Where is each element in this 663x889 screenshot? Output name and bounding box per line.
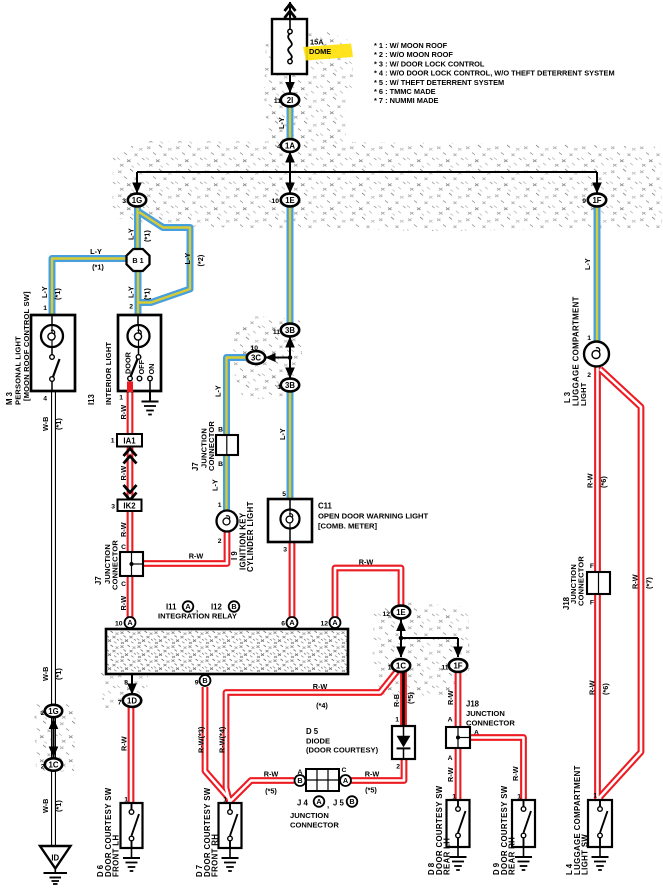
svg-text:DOOR: DOOR (124, 351, 133, 374)
svg-text:CYLINDER LIGHT: CYLINDER LIGHT (246, 501, 255, 572)
svg-text:1: 1 (593, 793, 597, 800)
svg-text:(*2): (*2) (196, 254, 205, 266)
svg-text:J7: J7 (94, 576, 103, 585)
svg-text:R-W: R-W (119, 466, 128, 481)
svg-text:1E: 1E (285, 196, 295, 205)
svg-text:FRONT LH: FRONT LH (112, 835, 121, 877)
svg-text:(*1): (*1) (54, 668, 63, 680)
svg-text:L-Y: L-Y (90, 247, 102, 256)
svg-text:CONNECTOR: CONNECTOR (290, 821, 339, 830)
svg-text:* 1 : W/ MOON ROOF: * 1 : W/ MOON ROOF (374, 41, 448, 50)
svg-text:R-W: R-W (365, 770, 380, 779)
svg-text:(*7): (*7) (645, 577, 654, 589)
svg-text:11: 11 (273, 329, 280, 336)
svg-text:A: A (289, 618, 295, 627)
svg-text:3: 3 (111, 504, 115, 511)
svg-text:11: 11 (441, 665, 448, 672)
svg-text:R-W: R-W (119, 596, 128, 611)
svg-text:* 7 : NUMMI MADE: * 7 : NUMMI MADE (374, 96, 439, 105)
svg-text:2: 2 (396, 764, 400, 771)
svg-text:(*1): (*1) (54, 800, 63, 812)
svg-text:2: 2 (41, 710, 45, 717)
svg-text:(*5): (*5) (265, 787, 277, 796)
svg-text:CONNECTOR: CONNECTOR (577, 556, 586, 606)
svg-text:F: F (590, 600, 594, 607)
svg-text:R-W: R-W (588, 680, 597, 695)
svg-text:2: 2 (41, 764, 45, 771)
svg-text:10: 10 (250, 345, 258, 352)
svg-text:1C: 1C (396, 661, 406, 670)
svg-text:(*1): (*1) (53, 288, 62, 300)
svg-text:1: 1 (43, 305, 47, 312)
svg-text:(*1): (*1) (54, 418, 63, 430)
svg-text:L-Y: L-Y (127, 228, 136, 240)
svg-text:L-Y: L-Y (583, 258, 592, 270)
svg-text:I11: I11 (166, 603, 177, 612)
svg-text:JUNCTION: JUNCTION (466, 709, 505, 718)
svg-text:R-B: R-B (392, 694, 401, 707)
svg-text:B 1: B 1 (132, 256, 143, 265)
svg-text:10: 10 (115, 621, 123, 628)
svg-text:1: 1 (388, 665, 392, 672)
svg-text:R-W: R-W (446, 690, 455, 705)
svg-text:8: 8 (124, 680, 128, 687)
svg-text:5: 5 (282, 491, 286, 498)
svg-text:R-W: R-W (120, 736, 129, 751)
svg-text:L-Y: L-Y (40, 286, 49, 298)
svg-text:(*1): (*1) (92, 263, 104, 272)
svg-text:R-W: R-W (359, 558, 374, 567)
svg-text:1: 1 (395, 717, 399, 724)
svg-text:3B: 3B (285, 381, 295, 390)
svg-text:I12: I12 (211, 603, 223, 612)
svg-text:A: A (448, 755, 453, 762)
svg-text:A: A (127, 618, 133, 627)
svg-text:[MOON ROOF CONTROL SW]: [MOON ROOF CONTROL SW] (22, 291, 31, 401)
svg-text:R-W: R-W (313, 682, 328, 691)
svg-text:R-W: R-W (631, 574, 640, 589)
svg-text:3: 3 (283, 547, 287, 554)
svg-text:1: 1 (124, 797, 128, 804)
svg-text:IA1: IA1 (123, 437, 136, 446)
svg-text:CONNECTOR: CONNECTOR (207, 421, 216, 471)
svg-text:(DOOR COURTESY): (DOOR COURTESY) (306, 746, 379, 755)
svg-text:7: 7 (118, 700, 122, 707)
svg-text:INTERIOR LIGHT: INTERIOR LIGHT (104, 342, 113, 405)
svg-text:1: 1 (517, 794, 521, 801)
svg-text:D 5: D 5 (306, 727, 319, 736)
svg-text:DOME: DOME (309, 47, 331, 56)
svg-text:1F: 1F (592, 196, 601, 205)
svg-text:INTEGRATION RELAY: INTEGRATION RELAY (158, 612, 237, 621)
svg-text:12: 12 (382, 611, 390, 618)
svg-text:R-W(*4): R-W(*4) (218, 726, 227, 753)
svg-text:A: A (343, 776, 349, 785)
svg-text:* 4 : W/O DOOR LOCK CONTROL, W: * 4 : W/O DOOR LOCK CONTROL, W/O THEFT D… (374, 69, 615, 78)
svg-text:(*6): (*6) (601, 683, 610, 695)
svg-text:(*1): (*1) (143, 230, 152, 242)
svg-text:1G: 1G (48, 707, 58, 716)
svg-text:ON: ON (147, 364, 156, 375)
svg-text:(*1): (*1) (143, 288, 152, 300)
svg-text:(*4): (*4) (316, 701, 328, 710)
svg-text:W-B: W-B (41, 417, 50, 431)
svg-text:1C: 1C (49, 760, 59, 769)
svg-text:C: C (342, 767, 347, 774)
svg-text:LIGHT: LIGHT (579, 382, 588, 406)
svg-text:REAR RH: REAR RH (508, 837, 517, 875)
svg-text:,: , (327, 801, 329, 810)
svg-text:(*6): (*6) (599, 476, 608, 488)
svg-text:CONNECTOR: CONNECTOR (111, 540, 120, 590)
svg-text:11: 11 (274, 98, 281, 105)
svg-text:4: 4 (43, 396, 47, 403)
svg-text:1: 1 (277, 384, 281, 391)
svg-text:B: B (231, 602, 236, 611)
svg-text:1: 1 (452, 794, 456, 801)
svg-text:JUNCTION: JUNCTION (290, 811, 329, 820)
svg-text:A: A (474, 730, 479, 737)
svg-text:12: 12 (320, 621, 328, 628)
svg-text:* 3 : W/ DOOR LOCK CONTROL: * 3 : W/ DOOR LOCK CONTROL (374, 59, 485, 68)
svg-text:L-Y: L-Y (278, 428, 287, 440)
svg-text:A: A (316, 797, 322, 806)
svg-text:LIGHT SW: LIGHT SW (581, 834, 590, 875)
svg-text:1: 1 (218, 502, 222, 509)
svg-text:R-W: R-W (511, 766, 520, 781)
svg-text:A: A (448, 717, 453, 724)
svg-text:2I: 2I (287, 96, 294, 105)
svg-text:1: 1 (587, 335, 591, 342)
svg-text:3B: 3B (285, 326, 295, 335)
svg-text:OPEN DOOR WARNING LIGHT: OPEN DOOR WARNING LIGHT (318, 512, 428, 521)
svg-text:1: 1 (119, 395, 123, 402)
svg-text:F: F (590, 563, 594, 570)
svg-text:R-W: R-W (586, 473, 595, 488)
svg-text:3: 3 (122, 198, 126, 205)
svg-text:L-Y: L-Y (214, 385, 223, 397)
svg-text:W-B: W-B (41, 799, 50, 813)
svg-text:9: 9 (195, 680, 199, 687)
svg-text:R-W: R-W (189, 552, 204, 561)
svg-text:L-Y: L-Y (277, 117, 286, 129)
svg-text:A: A (298, 769, 303, 776)
svg-text:B: B (297, 776, 302, 785)
svg-text:R-W: R-W (119, 405, 128, 420)
svg-text:1D: 1D (127, 696, 137, 705)
svg-text:IK2: IK2 (123, 502, 136, 511)
svg-text:9: 9 (582, 198, 586, 205)
svg-text:DIODE: DIODE (306, 737, 330, 746)
svg-text:1: 1 (223, 797, 227, 804)
svg-text:ID: ID (51, 854, 59, 863)
svg-text:1F: 1F (453, 661, 462, 670)
svg-text:R-W: R-W (446, 767, 455, 782)
svg-text:(*5): (*5) (406, 692, 415, 704)
svg-text:6: 6 (281, 621, 285, 628)
svg-text:J18: J18 (466, 700, 480, 709)
svg-text:1G: 1G (132, 196, 142, 205)
svg-text:REAR LH: REAR LH (443, 838, 452, 875)
svg-text:2: 2 (129, 304, 133, 311)
svg-text:L-Y: L-Y (127, 286, 136, 298)
svg-text:L-Y: L-Y (183, 253, 192, 265)
svg-text:R-W: R-W (119, 522, 128, 537)
svg-text:A: A (332, 618, 338, 627)
svg-text:1: 1 (111, 438, 115, 445)
svg-text:B: B (349, 797, 354, 806)
svg-text:B: B (202, 676, 207, 685)
svg-text:1A: 1A (285, 141, 295, 150)
svg-text:C11: C11 (318, 502, 333, 511)
svg-text:B: B (218, 427, 223, 434)
svg-text:10: 10 (271, 198, 279, 205)
svg-text:CONNECTOR: CONNECTOR (466, 719, 515, 728)
svg-text:3C: 3C (251, 353, 261, 362)
svg-text:(*5): (*5) (365, 786, 377, 795)
svg-text:C: C (121, 581, 126, 588)
svg-text:4: 4 (277, 144, 281, 151)
svg-text:C: C (121, 544, 126, 551)
svg-text:A: A (185, 602, 191, 611)
svg-text:L-Y: L-Y (211, 479, 220, 491)
svg-text:B: B (218, 461, 223, 468)
svg-text:[COMB. METER]: [COMB. METER] (318, 522, 378, 531)
svg-text:FRONT RH: FRONT RH (211, 834, 220, 877)
svg-text:* 5 : W/ THEFT DETERRENT SYSTE: * 5 : W/ THEFT DETERRENT SYSTEM (374, 78, 504, 87)
svg-text:15A: 15A (310, 38, 324, 47)
svg-text:1E: 1E (396, 608, 406, 617)
svg-text:* 2 : W/O MOON ROOF: * 2 : W/O MOON ROOF (374, 50, 453, 59)
svg-text:J 4: J 4 (297, 799, 309, 808)
svg-text:W-B: W-B (41, 667, 50, 681)
svg-text:* 6 : TMMC MADE: * 6 : TMMC MADE (374, 87, 436, 96)
svg-text:2: 2 (587, 372, 591, 379)
svg-text:2: 2 (218, 538, 222, 545)
svg-text:J 5: J 5 (333, 799, 345, 808)
svg-text:R-W: R-W (264, 770, 279, 779)
svg-text:OFF: OFF (137, 359, 146, 374)
svg-text:R-W(*3): R-W(*3) (197, 726, 206, 753)
svg-text:I13: I13 (87, 393, 96, 405)
